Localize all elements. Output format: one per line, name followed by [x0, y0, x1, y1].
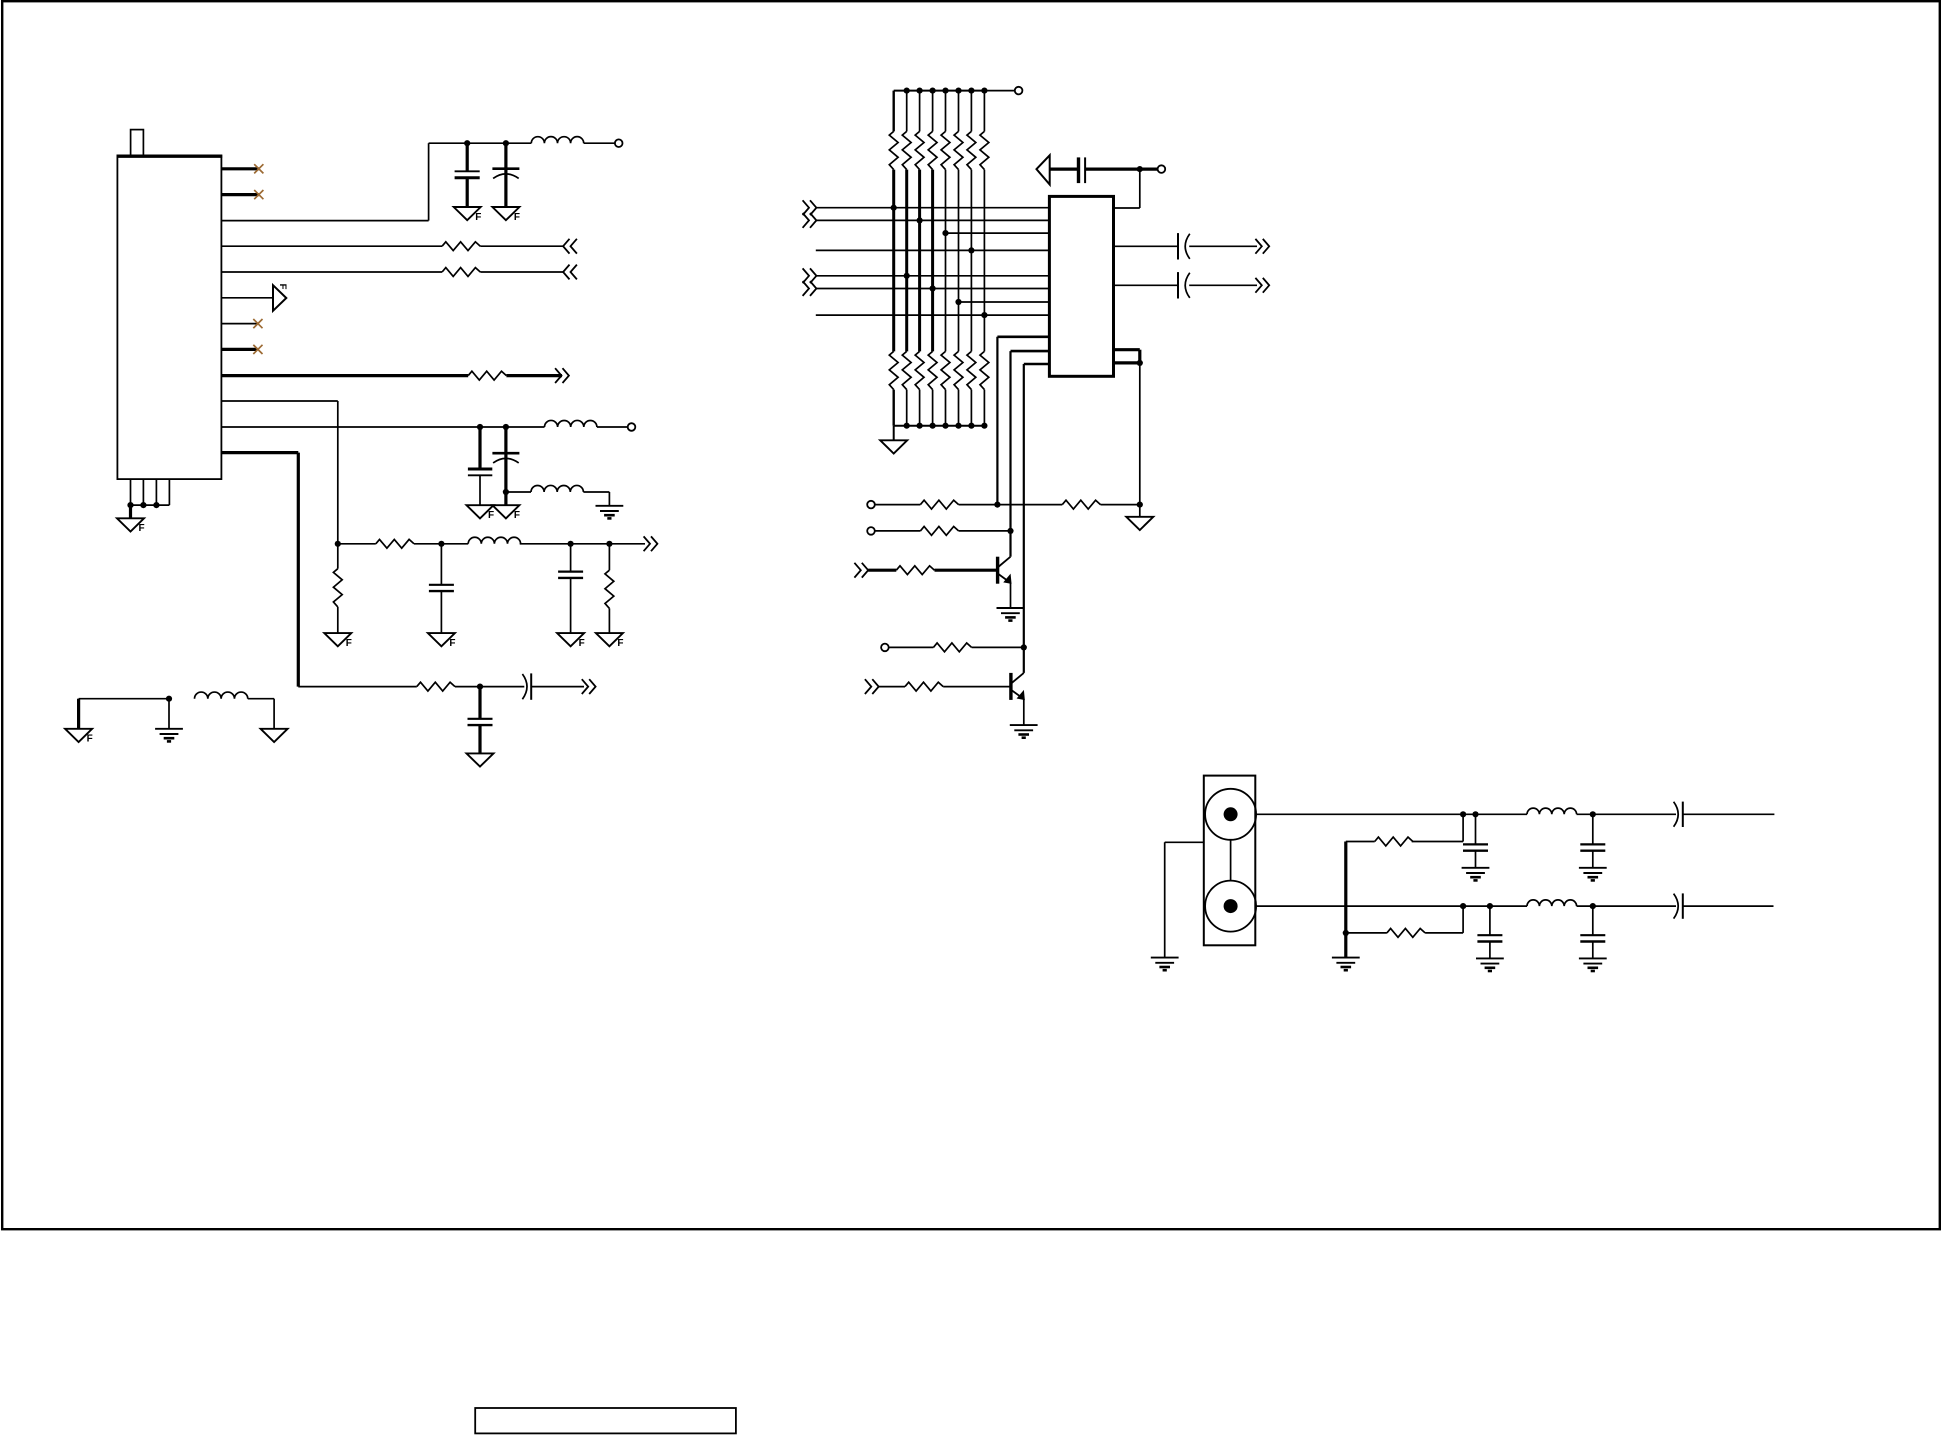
svg-text:F: F	[617, 638, 623, 649]
capacitor C7 lower lead	[504, 455, 507, 506]
line3 wire b	[972, 646, 1024, 648]
node top bus v7	[968, 88, 974, 94]
wire C9 to offpage	[531, 686, 584, 688]
svg-text:F: F	[514, 212, 520, 223]
row2 wire	[816, 219, 1049, 221]
off-page arrow right net9	[555, 368, 569, 383]
capacitor C4 shunt	[440, 544, 442, 585]
capacitor C7 lead	[504, 427, 507, 453]
Q2 base wire b	[943, 686, 1011, 688]
capacitor C6 lower lead	[479, 475, 481, 505]
capacitor C2 lead	[504, 143, 507, 169]
capacitor C18 (series)	[1674, 894, 1679, 919]
earth ground L4	[596, 505, 624, 507]
filter rail wire	[429, 142, 532, 144]
ground F C6	[467, 505, 494, 518]
no-connect X pin 1	[254, 164, 263, 173]
inductor L4	[531, 485, 583, 492]
earth ground Q1	[997, 607, 1025, 609]
node row5	[904, 273, 910, 279]
U1 pin 2 wire	[221, 193, 258, 196]
ground F R6	[596, 633, 623, 646]
capacitor C13 shunt	[1475, 814, 1477, 844]
capacitor C15 (series)	[1674, 802, 1679, 827]
resistor column RN8 (top+bottom)	[983, 91, 985, 132]
ground F left	[65, 729, 92, 742]
node bottom bus v5	[942, 423, 948, 429]
earth ground center	[155, 728, 183, 730]
node net11-C6	[477, 424, 483, 430]
wire drop to U2 pin	[1139, 169, 1141, 208]
node shield trunk	[1343, 930, 1349, 936]
node rail-C1	[464, 140, 470, 146]
U1 pin 10 wire	[221, 400, 337, 402]
inductor L2	[468, 537, 520, 544]
capacitor C1 lead	[466, 143, 469, 171]
op-amp U1 body	[117, 155, 221, 479]
wire R2 to offpage	[480, 271, 563, 273]
off-page arrow right net12	[582, 679, 596, 694]
resistor column RN6 (top+bottom)	[958, 91, 960, 132]
U2 wire bottom-left 3	[1024, 363, 1050, 366]
earth ground C16	[1476, 957, 1504, 959]
array bottom bus	[894, 425, 985, 427]
resistor R5 shunt	[337, 544, 339, 569]
capacitor C11 (series polarized)	[1177, 233, 1179, 259]
resistor R3	[468, 371, 506, 380]
off-page arrow row6	[803, 281, 817, 296]
transistor Q1	[996, 557, 999, 584]
node R6	[606, 541, 612, 547]
capacitor C10 (series)	[1077, 157, 1080, 183]
node top bus v6	[955, 88, 961, 94]
capacitor C14 shunt	[1592, 814, 1594, 844]
U1 pin 11 wire	[221, 426, 544, 428]
U1 pin 8 wire	[221, 348, 257, 351]
line2 wire	[875, 530, 921, 532]
rca line1 wire a	[1256, 813, 1527, 815]
earth ground trunk	[1332, 957, 1360, 959]
svg-text:F: F	[488, 510, 494, 521]
U2 pin wire lower right B	[1114, 361, 1140, 364]
ground triangle line1	[1126, 517, 1153, 530]
U2 pin wire lower right A	[1114, 348, 1140, 351]
wire C7 to L4	[506, 491, 531, 493]
Q2 base wire	[879, 686, 905, 688]
rca line2 wire a	[1256, 905, 1527, 907]
no-connect X pin 8	[253, 345, 262, 354]
node line1 v1	[994, 502, 1000, 508]
svg-text:F: F	[346, 638, 352, 649]
wire R1 to offpage	[480, 245, 563, 247]
capacitor C17 shunt	[1592, 906, 1594, 935]
resistor R12	[933, 643, 971, 652]
wire C11 to offpage	[1189, 245, 1257, 247]
resistor R13	[905, 682, 943, 691]
resistor R11	[896, 566, 934, 575]
rca line1 wire c	[1683, 813, 1775, 815]
resistor column RN7 (top+bottom)	[970, 91, 972, 132]
node gnd3	[153, 502, 159, 508]
ground F R5	[324, 633, 351, 646]
off-page arrow left U2 top	[1037, 155, 1050, 184]
node bottom bus v2	[904, 423, 910, 429]
wire drop to line1	[1139, 363, 1141, 505]
svg-text:F: F	[277, 284, 288, 290]
wire bus to ground	[129, 505, 132, 518]
node bottom bus v6	[955, 423, 961, 429]
wire R3 to offpage	[506, 374, 562, 377]
U1 top tab	[131, 130, 144, 156]
capacitor C2 (polarized)	[492, 167, 519, 170]
wire left drop	[77, 699, 80, 729]
node bottom bus v3	[917, 423, 923, 429]
node row3	[942, 230, 948, 236]
terminal pin line1	[867, 501, 875, 509]
line3 wire	[889, 646, 934, 648]
line1 wire a	[875, 504, 921, 506]
ground F C7	[492, 505, 519, 518]
off-page arrow right C11	[1255, 239, 1269, 254]
node line1 right	[1137, 502, 1143, 508]
capacitor C1	[455, 170, 480, 172]
wire riser to filter rail	[428, 143, 430, 220]
resistor R1	[442, 242, 480, 251]
capacitor C6	[468, 468, 492, 471]
row1 wire	[816, 207, 1049, 209]
U1 pin 6 wire	[221, 297, 273, 299]
node C10 net	[1137, 166, 1143, 172]
resistor R15	[1346, 932, 1387, 934]
Q2 emitter wire	[1023, 699, 1025, 725]
wire L4 to ground	[583, 491, 609, 493]
resistor R8	[920, 500, 958, 509]
title block box	[475, 1408, 736, 1433]
node C5	[568, 541, 574, 547]
IC U2 body	[1049, 196, 1113, 376]
line1 wire c	[1101, 504, 1140, 506]
resistor R9	[1062, 500, 1100, 509]
wire R15 to rca2	[1462, 906, 1464, 933]
inductor L6	[1527, 808, 1577, 814]
wire to R4	[338, 543, 376, 545]
capacitor C8 shunt	[478, 687, 481, 719]
wire rca1 to R14	[1462, 814, 1464, 841]
wire stub to ground	[1139, 505, 1141, 517]
no-connect X pin 2	[254, 190, 263, 199]
node rca1 c	[1590, 811, 1596, 817]
transistor Q2	[1009, 673, 1012, 700]
earth ground C14	[1579, 867, 1607, 869]
node rca1 b	[1472, 811, 1478, 817]
ground triangle array	[880, 440, 907, 453]
connector J1 body	[1204, 776, 1256, 946]
node row4	[968, 247, 974, 253]
node rca2 b	[1487, 903, 1493, 909]
rca line2 wire c	[1683, 905, 1774, 907]
inductor L5	[195, 692, 248, 699]
U2 wire bottom-left 2	[1011, 350, 1050, 353]
ground triangle right	[261, 729, 288, 742]
node row7	[955, 299, 961, 305]
node top bus v4	[930, 88, 936, 94]
node rca2 a	[1460, 903, 1466, 909]
terminal pin line3	[881, 644, 889, 652]
node rca2 c	[1590, 903, 1596, 909]
line2 wire b	[959, 530, 1011, 532]
node row8	[981, 312, 987, 318]
terminal pin array	[1015, 87, 1023, 95]
resistor column RN3 (top+bottom)	[919, 91, 921, 132]
resistor column RN2 (top+bottom)	[906, 91, 908, 132]
shield wire	[1165, 841, 1204, 843]
node C7-L4	[503, 489, 509, 495]
U1 pin 3 wire	[221, 220, 428, 222]
wire arrow to C10	[1050, 168, 1079, 171]
U1 pin 5 wire	[221, 271, 442, 273]
terminal pin U2 top	[1158, 165, 1166, 173]
rca line2 wire b	[1577, 905, 1676, 907]
capacitor C9 (series)	[522, 674, 527, 699]
svg-text:F: F	[514, 510, 520, 521]
svg-text:F: F	[579, 638, 585, 649]
node top bus v8	[981, 88, 987, 94]
resistor R2	[442, 268, 480, 277]
resistor R6 shunt	[608, 544, 610, 570]
svg-text:F: F	[449, 638, 455, 649]
row7 wire	[959, 301, 1050, 303]
ground F C2	[492, 207, 519, 220]
wire bus to ground	[893, 426, 895, 441]
node top bus v2	[904, 88, 910, 94]
U1 pin 12 wire	[221, 451, 298, 454]
node line2	[1007, 528, 1013, 534]
capacitor C12 (series polarized)	[1177, 272, 1179, 298]
capacitor C5 shunt	[570, 544, 572, 572]
node net11-C7	[503, 424, 509, 430]
resistor column RN5 (top+bottom)	[945, 91, 947, 132]
off-page arrow base Q2	[865, 679, 879, 694]
wire node to C9	[480, 686, 524, 688]
node row6	[930, 285, 936, 291]
row4 wire	[816, 249, 1050, 251]
off-page arrow left net5	[563, 265, 577, 280]
earth ground C13	[1462, 867, 1490, 869]
terminal pin second filter	[628, 423, 636, 431]
resistor R14	[1412, 841, 1463, 843]
off-page arrow row5	[803, 268, 817, 283]
ground F C4	[428, 633, 455, 646]
node bottom bus v7	[968, 423, 974, 429]
connector J1 jack B	[1205, 881, 1256, 932]
U1 pin 7 wire	[221, 323, 257, 325]
node top bus v5	[942, 88, 948, 94]
wire net12 bottom	[298, 686, 417, 688]
off-page arrow row2	[803, 213, 817, 228]
svg-text:F: F	[475, 212, 481, 223]
off-page arrow right net10	[644, 536, 658, 551]
node gnd1	[127, 502, 133, 508]
wire center drop	[168, 699, 170, 729]
wire between jacks	[1230, 840, 1232, 881]
node rail-C2	[503, 140, 509, 146]
ground bus wire	[131, 504, 170, 506]
node rca1 a	[1460, 811, 1466, 817]
array top bus	[894, 90, 985, 92]
earth ground Q2	[1010, 724, 1038, 726]
inductor L1	[531, 137, 583, 144]
node R7-C8	[477, 684, 483, 690]
Q1 base wire b	[935, 569, 998, 572]
wire C10 to terminal	[1085, 168, 1158, 171]
node top bus v3	[917, 88, 923, 94]
earth ground shield	[1151, 957, 1179, 959]
U1 pin 1 wire	[221, 167, 258, 170]
U1 ground pins	[130, 479, 132, 505]
node row2	[917, 217, 923, 223]
resistor R7	[417, 682, 455, 691]
node ferrite left	[166, 696, 172, 702]
row8 wire	[816, 314, 1050, 316]
wire ferrite net	[79, 698, 169, 700]
resistor R10	[920, 527, 958, 536]
node U2 lower right	[1137, 360, 1143, 366]
wire node to L2	[441, 543, 468, 545]
node net10 corner	[335, 541, 341, 547]
resistor column RN4 (top+bottom)	[932, 91, 934, 132]
ground C8	[467, 753, 494, 766]
node R4-L2	[438, 541, 444, 547]
U1 pin 9 wire	[221, 374, 468, 377]
U2 wire to C11	[1114, 245, 1179, 247]
node row1	[891, 205, 897, 211]
inductor L7	[1527, 900, 1577, 906]
Q1 base wire	[868, 569, 896, 572]
capacitor C16 shunt	[1489, 906, 1491, 935]
U2 wire bottom-left 1	[997, 335, 1049, 338]
wire drop net12	[297, 453, 300, 687]
row3 wire	[946, 232, 1050, 234]
resistor column RN1 (top+bottom)	[893, 91, 895, 132]
U1 pin 4 wire	[221, 245, 442, 247]
capacitor C6 lead	[478, 427, 481, 469]
svg-text:F: F	[87, 734, 93, 745]
node gnd2	[140, 502, 146, 508]
ground F C5	[557, 633, 584, 646]
capacitor C2 lower lead	[504, 170, 507, 207]
node bottom bus v8	[981, 423, 987, 429]
row6 wire	[816, 288, 1049, 290]
wire C12 to offpage	[1189, 284, 1257, 286]
terminal pin top filter	[615, 139, 623, 147]
resistor R4	[376, 539, 414, 548]
wire bus to terminal	[984, 90, 1014, 92]
rca line1 wire b	[1577, 813, 1676, 815]
svg-text:F: F	[139, 523, 145, 534]
wire shield trunk	[1344, 842, 1347, 958]
capacitor C1 lower lead	[466, 178, 469, 207]
capacitor C7 (polarized)	[492, 452, 519, 455]
inductor L3	[545, 420, 597, 427]
U2 wire to C12	[1114, 284, 1179, 286]
node line3	[1021, 644, 1027, 650]
off-page arrow left net4	[563, 239, 577, 254]
Q1 emitter wire	[1010, 583, 1012, 608]
earth ground C17	[1579, 957, 1607, 959]
line1 wire b	[959, 504, 1063, 506]
no-connect X pin 7	[253, 319, 262, 328]
terminal pin line2	[867, 527, 875, 535]
wire drop net10	[337, 401, 339, 544]
wire R4 to node	[414, 543, 441, 545]
connector J1 jack A	[1205, 789, 1256, 840]
ground F U1	[117, 518, 144, 531]
row5 wire	[816, 275, 1049, 277]
node bottom bus v4	[930, 423, 936, 429]
off-page arrow base Q1	[854, 563, 868, 578]
buffer flag F	[273, 285, 286, 311]
wire L5 corner	[248, 698, 274, 700]
off-page arrow right C12	[1255, 278, 1269, 293]
wire R7 to node	[455, 686, 480, 688]
wire L1 to terminal	[584, 142, 615, 144]
ground F C1	[454, 207, 481, 220]
wire L3 to terminal	[597, 426, 628, 428]
wire L2 to caps	[520, 543, 645, 545]
off-page arrow row1	[803, 200, 817, 215]
